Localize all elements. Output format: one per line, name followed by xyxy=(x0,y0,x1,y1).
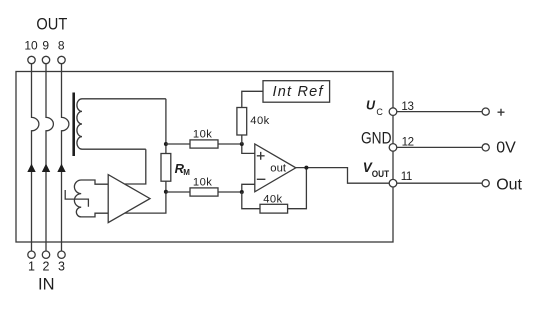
op-amp plus sign xyxy=(257,152,265,160)
terminal circle pin 13 xyxy=(389,108,397,116)
terminal circle pin 12 xyxy=(389,144,397,152)
compensation coil at A1 input xyxy=(74,180,108,217)
svg-text:out: out xyxy=(270,163,287,175)
Int Ref block xyxy=(263,81,330,103)
op-amp U1 xyxy=(255,144,296,192)
wire A1 output to node B xyxy=(125,192,166,213)
wire node D to op-amp minus input xyxy=(242,184,255,192)
svg-text:GND: GND xyxy=(361,129,392,147)
resistor 40k reference xyxy=(237,91,263,144)
wire primary line 3 (pin 8 to pin 3) xyxy=(62,64,69,252)
resistor 10k lower xyxy=(166,188,242,196)
svg-text:Out: Out xyxy=(496,176,522,193)
external wire plus supply xyxy=(393,111,486,113)
transformer core xyxy=(72,93,75,157)
wire primary line 1 (pin 10 to pin 1) xyxy=(32,64,39,252)
wire node C to op-amp plus input xyxy=(242,144,255,153)
external terminal Out xyxy=(482,180,489,187)
svg-text:0V: 0V xyxy=(496,140,516,157)
external terminal 0V xyxy=(482,144,489,151)
IC outer box xyxy=(16,72,393,243)
node E junction dot xyxy=(304,166,308,170)
transformer secondary winding xyxy=(77,99,166,149)
svg-text:9: 9 xyxy=(42,38,49,52)
svg-text:C: C xyxy=(376,107,383,117)
svg-text:10k: 10k xyxy=(193,177,212,189)
coil centre tap xyxy=(65,190,88,207)
resistor 40k feedback xyxy=(242,168,307,214)
svg-text:2: 2 xyxy=(43,260,50,274)
wire secondary top lead to node A xyxy=(165,99,167,144)
wire primary line 2 (pin 9 to pin 2) xyxy=(46,64,53,252)
wire secondary bottom lead to amplifier A1 xyxy=(125,149,146,184)
resistor 10k upper xyxy=(166,140,242,148)
terminal circle pin 10 xyxy=(28,56,35,63)
svg-text:11: 11 xyxy=(401,170,412,183)
external terminal plus xyxy=(482,108,489,115)
svg-text:OUT: OUT xyxy=(372,169,389,180)
terminal circle pin 9 xyxy=(42,56,49,63)
current arrow on line 2 xyxy=(42,164,50,172)
node B junction dot xyxy=(164,190,168,194)
terminal circle pin 2 xyxy=(42,251,49,258)
op-amp minus sign xyxy=(257,178,266,180)
svg-text:12: 12 xyxy=(402,136,414,149)
svg-text:1: 1 xyxy=(28,260,35,274)
terminal circle pin 8 xyxy=(58,56,65,63)
svg-text:3: 3 xyxy=(58,260,65,274)
node A junction dot xyxy=(164,142,168,146)
svg-text:IN: IN xyxy=(38,275,55,293)
svg-text:M: M xyxy=(183,168,190,177)
current arrow on line 3 xyxy=(57,164,65,172)
terminal circle pin 11 xyxy=(389,179,397,187)
external wire 0V xyxy=(393,146,486,148)
svg-text:40k: 40k xyxy=(263,194,282,206)
amplifier A1 xyxy=(108,175,150,223)
svg-text:Int Ref: Int Ref xyxy=(273,84,325,100)
svg-text:OUT: OUT xyxy=(36,15,67,34)
svg-text:U: U xyxy=(366,98,376,112)
current arrow on line 1 xyxy=(27,164,35,172)
terminal circle pin 1 xyxy=(28,251,35,258)
node C junction dot xyxy=(240,142,244,146)
plus symbol xyxy=(498,109,505,116)
external wire Out xyxy=(393,182,486,184)
svg-text:8: 8 xyxy=(58,38,65,52)
node D junction dot xyxy=(240,190,244,194)
svg-text:10: 10 xyxy=(24,38,38,52)
svg-text:10k: 10k xyxy=(193,129,212,141)
wire op-amp output to pin 11 xyxy=(296,168,393,184)
resistor RM xyxy=(161,144,171,192)
terminal circle pin 3 xyxy=(58,251,65,258)
svg-text:40k: 40k xyxy=(250,115,269,127)
svg-text:13: 13 xyxy=(401,100,413,113)
